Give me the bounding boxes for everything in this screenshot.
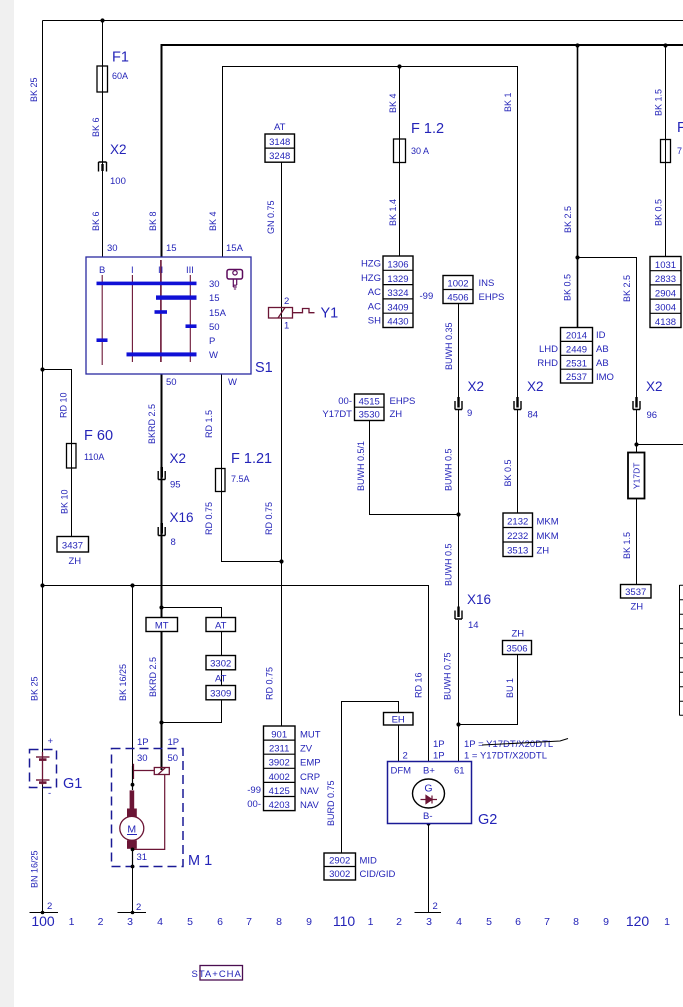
svg-text:HZG: HZG xyxy=(361,273,381,284)
S1 row labels 30 15 15A 50 P W xyxy=(209,279,227,361)
svg-text:50: 50 xyxy=(168,753,179,764)
node: junction left wire/F60 branch xyxy=(40,367,44,371)
svg-text:7: 7 xyxy=(544,916,550,928)
svg-text:2531: 2531 xyxy=(566,358,587,369)
svg-text:HZG: HZG xyxy=(361,259,381,270)
G2 rotor circle xyxy=(413,779,445,808)
svg-text:EH: EH xyxy=(392,715,405,726)
wire: AT box to 3302 xyxy=(221,632,223,656)
svg-text:9: 9 xyxy=(603,916,609,928)
svg-text:2: 2 xyxy=(47,901,52,912)
connector X2 pin 95 on 50-wire xyxy=(158,451,186,491)
svg-text:50: 50 xyxy=(166,377,177,388)
svg-text:BUWH 0.5: BUWH 0.5 xyxy=(444,448,454,491)
block 2902/3002 xyxy=(324,853,396,880)
svg-text:CRP: CRP xyxy=(300,772,320,783)
svg-text:BK 6: BK 6 xyxy=(91,117,101,137)
node: junction W-wire meets Y1 wire xyxy=(279,559,283,563)
svg-text:1P: 1P xyxy=(433,751,445,762)
svg-text:96: 96 xyxy=(647,410,658,421)
svg-text:2014: 2014 xyxy=(566,331,587,342)
svg-text:ID: ID xyxy=(596,330,606,341)
svg-text:M: M xyxy=(127,824,136,836)
grid coordinate numbers xyxy=(31,913,670,929)
svg-text:00-: 00- xyxy=(338,396,352,407)
generator G2 xyxy=(388,762,498,829)
svg-text:AB: AB xyxy=(596,344,609,355)
svg-text:4: 4 xyxy=(456,916,462,928)
svg-text:MKM: MKM xyxy=(537,531,559,542)
svg-text:+: + xyxy=(48,736,54,747)
svg-text:BK 0.5: BK 0.5 xyxy=(654,199,664,226)
svg-text:NAV: NAV xyxy=(300,786,319,797)
G2 diode symbol xyxy=(421,796,438,804)
connector stack at right page edge xyxy=(680,585,683,716)
node: junction G2 B- xyxy=(426,821,430,825)
svg-text:RHD: RHD xyxy=(537,358,558,369)
svg-text:RD 10: RD 10 xyxy=(59,392,69,418)
svg-text:X2: X2 xyxy=(110,142,127,157)
wire: branch to fuse F60 xyxy=(43,370,72,537)
svg-text:X2: X2 xyxy=(468,379,485,394)
svg-text:14: 14 xyxy=(468,620,479,631)
connector X2 pin 9 xyxy=(455,379,484,419)
svg-text:BK 16/25: BK 16/25 xyxy=(118,664,128,701)
svg-text:RD 16: RD 16 xyxy=(414,672,424,698)
svg-text:2132: 2132 xyxy=(507,517,528,528)
svg-text:BUWH 0.75: BUWH 0.75 xyxy=(443,652,453,700)
connector X16 pin 14 xyxy=(455,592,491,631)
svg-text:15: 15 xyxy=(166,243,177,254)
svg-text:RD 0.75: RD 0.75 xyxy=(204,502,214,535)
svg-text:5: 5 xyxy=(486,916,492,928)
svg-text:2: 2 xyxy=(98,916,104,928)
svg-text:S1: S1 xyxy=(255,360,273,376)
svg-text:60A: 60A xyxy=(112,71,128,81)
wire: BK2.5 drop to block 2014 xyxy=(577,46,579,328)
node: battery ground joint xyxy=(41,911,45,915)
svg-text:4: 4 xyxy=(157,916,163,928)
svg-text:30: 30 xyxy=(137,753,148,764)
wire: X2-96 to Y17DT unit and node to right edge xyxy=(636,410,638,453)
svg-text:EMP: EMP xyxy=(300,758,321,769)
svg-text:MKM: MKM xyxy=(537,517,559,528)
svg-text:II: II xyxy=(158,265,163,276)
svg-text:00-: 00- xyxy=(247,799,261,810)
svg-text:3302: 3302 xyxy=(210,659,231,670)
starter motor M1 xyxy=(112,737,213,869)
wire: top bus 30-feed from battery node xyxy=(43,20,683,22)
svg-text:15A: 15A xyxy=(209,308,227,319)
svg-text:BUWH 0.5/1: BUWH 0.5/1 xyxy=(356,441,366,491)
svg-text:6: 6 xyxy=(515,916,521,928)
block stack 901/2311/3902/4002/4125/4203 xyxy=(247,726,321,811)
key icon of S1 xyxy=(227,270,243,290)
svg-text:8: 8 xyxy=(171,537,176,548)
svg-text:F: F xyxy=(677,120,683,136)
svg-text:CID/GID: CID/GID xyxy=(360,869,396,880)
block 3537 xyxy=(621,585,652,613)
svg-text:RD 0.75: RD 0.75 xyxy=(264,502,274,535)
svg-text:BK 6: BK 6 xyxy=(91,211,101,231)
current-flow tag STA+CHA xyxy=(192,966,243,981)
svg-text:ZH: ZH xyxy=(537,546,550,557)
svg-text:4125: 4125 xyxy=(269,786,290,797)
svg-text:AT: AT xyxy=(274,122,286,133)
svg-text:2: 2 xyxy=(284,296,289,307)
svg-text:3004: 3004 xyxy=(655,303,676,314)
node: junction X2-96 wire to right edge xyxy=(634,442,638,446)
svg-text:61: 61 xyxy=(454,766,465,777)
block stack 2132/2232/3513 xyxy=(503,513,559,557)
svg-text:3002: 3002 xyxy=(329,869,350,880)
svg-text:1329: 1329 xyxy=(387,274,408,285)
svg-text:3: 3 xyxy=(426,916,432,928)
node: junction BUWH/4515 branch xyxy=(456,512,460,516)
wire: EH box to G2 terminal DFM xyxy=(398,725,400,762)
svg-text:1P: 1P xyxy=(168,737,180,748)
wire: branch from 50-wire to AT gearbox chain xyxy=(162,608,222,618)
ground: battery earth strap xyxy=(30,912,59,914)
svg-text:1002: 1002 xyxy=(447,279,468,290)
svg-text:BK 2.5: BK 2.5 xyxy=(622,275,632,302)
block stack 1031/2833/2904/3004/4138 xyxy=(650,257,681,328)
svg-text:3409: 3409 xyxy=(387,302,408,313)
wire: branch from block 3530 to BUWH node xyxy=(370,421,459,515)
wire: GN0.75 from block 3248 through Y1 down to block 901 xyxy=(281,162,283,726)
block 4515/3530 xyxy=(322,394,415,421)
wire: branch from block 3506 to BUWH node xyxy=(459,655,518,725)
ignition switch S1 body xyxy=(86,257,251,374)
svg-text:-99: -99 xyxy=(420,291,434,302)
svg-text:LHD: LHD xyxy=(539,344,558,355)
svg-text:AB: AB xyxy=(596,358,609,369)
node: junction bus15/BK2.5 xyxy=(575,43,579,47)
node: M1 ground joint xyxy=(131,911,135,915)
block MT xyxy=(146,618,178,632)
wire: BK1 continuation below connector X2-84 into block 2132 xyxy=(517,410,519,514)
node: junction 50-wire/AT branch xyxy=(159,605,163,609)
svg-text:2449: 2449 xyxy=(566,344,587,355)
svg-text:AT: AT xyxy=(215,674,227,685)
wire: BK16-25 drop to M1 terminal 30 xyxy=(132,586,134,767)
svg-text:15: 15 xyxy=(209,293,220,304)
svg-text:X2: X2 xyxy=(170,451,187,466)
svg-text:MT: MT xyxy=(155,621,169,632)
svg-text:2: 2 xyxy=(136,902,141,913)
svg-text:30: 30 xyxy=(107,243,118,254)
svg-text:ZV: ZV xyxy=(300,744,313,755)
svg-text:2537: 2537 xyxy=(566,372,587,383)
ground: G2 earth strap xyxy=(415,912,442,914)
wire: S1 terminal 50 down to starter M1 (thick BKRD2.5) xyxy=(161,374,163,770)
svg-text:4430: 4430 xyxy=(387,317,408,328)
svg-text:3530: 3530 xyxy=(359,410,380,421)
svg-text:X2: X2 xyxy=(646,379,663,394)
svg-text:BK 25: BK 25 xyxy=(29,77,39,102)
svg-text:1P: 1P xyxy=(433,739,445,750)
wire: left battery lead BK25 / BN16-25 xyxy=(42,21,44,913)
svg-text:AC: AC xyxy=(368,301,381,312)
svg-text:BUWH 0.35: BUWH 0.35 xyxy=(444,322,454,370)
block 1002/4506 xyxy=(443,276,504,304)
connector X16 pin 8 on 50-wire xyxy=(158,510,193,548)
svg-text:ZH: ZH xyxy=(69,556,82,567)
svg-text:III: III xyxy=(186,265,194,276)
svg-text:F1: F1 xyxy=(112,50,129,66)
wire: S1 terminal W via fuse F1.21 to Y1 node xyxy=(222,374,282,562)
svg-text:F 1.21: F 1.21 xyxy=(231,451,272,467)
S1 column header labels xyxy=(99,265,194,276)
svg-text:MUT: MUT xyxy=(300,730,321,741)
node: junction bus15A/F1.2 xyxy=(397,64,401,68)
svg-text:4002: 4002 xyxy=(269,772,290,783)
wire: bus 15-feed (thick) from S1 terminal 15 xyxy=(162,45,683,257)
svg-text:-: - xyxy=(48,788,51,799)
svg-text:W: W xyxy=(209,350,218,361)
wire: right fuse drop BK1.5/BK0.5 to block 1031 xyxy=(665,46,667,257)
G1 cell plates xyxy=(36,752,50,785)
svg-text:-99: -99 xyxy=(247,785,261,796)
svg-text:30: 30 xyxy=(209,279,220,290)
svg-text:BK 4: BK 4 xyxy=(388,93,398,113)
control unit Y17DT box xyxy=(628,453,645,499)
wire: 3309 return to 50-wire xyxy=(162,700,222,723)
svg-text:F 60: F 60 xyxy=(84,428,113,444)
wire: BUWH from block 4506 through X2-9, X16-14 to G2 61 xyxy=(458,304,460,402)
svg-text:2904: 2904 xyxy=(655,288,676,299)
svg-text:M 1: M 1 xyxy=(188,853,212,869)
svg-text:BK 1: BK 1 xyxy=(503,92,513,112)
svg-text:MID: MID xyxy=(360,856,378,867)
svg-text:8: 8 xyxy=(573,916,579,928)
svg-text:Y17DT: Y17DT xyxy=(632,463,642,489)
svg-text:110: 110 xyxy=(333,913,356,929)
svg-text:5: 5 xyxy=(187,916,193,928)
svg-text:ZH: ZH xyxy=(390,409,403,420)
svg-text:STA+CHA: STA+CHA xyxy=(192,969,242,980)
svg-text:4203: 4203 xyxy=(269,800,290,811)
svg-text:2: 2 xyxy=(403,751,408,762)
svg-text:9: 9 xyxy=(467,408,472,419)
svg-text:4506: 4506 xyxy=(447,293,468,304)
svg-text:IMO: IMO xyxy=(596,372,614,383)
block stack 2014/2449/2531/2537 xyxy=(537,328,614,384)
svg-text:7: 7 xyxy=(246,916,252,928)
node: junction bus D/M1 drop xyxy=(130,583,134,587)
M1 internal joints xyxy=(131,783,135,787)
block 3506 xyxy=(503,641,532,655)
svg-text:ZH: ZH xyxy=(631,602,644,613)
svg-text:7: 7 xyxy=(677,146,682,156)
footnote text 1P = Y17DT/X20DTL (struck) xyxy=(464,739,568,751)
svg-text:2232: 2232 xyxy=(507,531,528,542)
svg-text:3902: 3902 xyxy=(269,758,290,769)
svg-text:100: 100 xyxy=(31,913,55,929)
svg-text:AC: AC xyxy=(368,287,381,298)
svg-text:B-: B- xyxy=(423,811,433,822)
svg-text:7.5A: 7.5A xyxy=(231,474,250,484)
svg-text:1P: 1P xyxy=(137,737,149,748)
wire: BURD0.75 from block 2902 up to EH box xyxy=(342,702,399,854)
svg-text:X16: X16 xyxy=(467,592,491,607)
svg-text:B+: B+ xyxy=(423,766,435,777)
svg-text:1 = Y17DT/X20DTL: 1 = Y17DT/X20DTL xyxy=(464,751,547,762)
svg-text:X2: X2 xyxy=(527,379,544,394)
svg-text:1P = Y17DT/X20DTL: 1P = Y17DT/X20DTL xyxy=(464,739,553,750)
svg-text:BU 1: BU 1 xyxy=(505,678,515,698)
ground: M1 earth strap xyxy=(118,912,147,914)
svg-text:120: 120 xyxy=(626,913,650,929)
svg-text:NAV: NAV xyxy=(300,800,319,811)
wire: Y17DT unit to block 3537 (BK1.5) xyxy=(636,499,638,585)
svg-text:1: 1 xyxy=(69,916,75,928)
block AT xyxy=(206,618,236,632)
connector X2 pin 84 xyxy=(514,379,544,421)
svg-text:INS: INS xyxy=(479,278,495,289)
svg-text:BK 25: BK 25 xyxy=(30,676,40,701)
svg-text:3: 3 xyxy=(127,916,133,928)
svg-text:4138: 4138 xyxy=(655,317,676,328)
svg-text:BKRD 2.5: BKRD 2.5 xyxy=(147,404,157,444)
wire: F1.2 drop BK4/BK1.4 to block 1306 xyxy=(399,67,401,257)
svg-text:3324: 3324 xyxy=(387,288,408,299)
wire: fuse F1 drop BK6 to S1 terminal 30 xyxy=(102,21,104,258)
svg-text:1: 1 xyxy=(284,321,289,332)
svg-text:6: 6 xyxy=(217,916,223,928)
svg-text:1: 1 xyxy=(368,916,374,928)
svg-text:2833: 2833 xyxy=(655,274,676,285)
node: junction bus15/right fuse xyxy=(663,43,667,47)
svg-text:110A: 110A xyxy=(84,452,104,462)
wire: G2 B- to ground xyxy=(428,824,430,913)
svg-text:2: 2 xyxy=(396,916,402,928)
svg-text:BK 1.5: BK 1.5 xyxy=(622,532,632,559)
wire: M1 30-terminal internal lead xyxy=(132,766,134,790)
node: junction left wire/bus D xyxy=(40,583,44,587)
svg-text:SH: SH xyxy=(368,316,381,327)
block EH xyxy=(384,713,414,726)
svg-text:Y17DT: Y17DT xyxy=(322,409,352,420)
wire: 3302 to 3309 gap xyxy=(221,670,223,686)
svg-text:G2: G2 xyxy=(478,812,497,828)
svg-text:BK 0.5: BK 0.5 xyxy=(563,274,573,301)
svg-text:2902: 2902 xyxy=(329,856,350,867)
svg-text:3148: 3148 xyxy=(269,137,290,148)
svg-text:3248: 3248 xyxy=(269,151,290,162)
battery G1 xyxy=(30,736,83,799)
svg-text:F 1.2: F 1.2 xyxy=(411,121,444,137)
svg-text:15A: 15A xyxy=(226,243,244,254)
fuse F1.21 xyxy=(216,451,273,492)
svg-text:901: 901 xyxy=(271,730,287,741)
svg-text:I: I xyxy=(131,265,134,276)
M1 brush block lower xyxy=(127,840,137,849)
S1 contact bars xyxy=(97,282,197,357)
M1 dashed housing xyxy=(112,749,184,867)
block stack 1306/1329/3324/3409/4430 xyxy=(361,256,433,328)
svg-text:3506: 3506 xyxy=(506,644,527,655)
wire: bus 15A-feed from S1 terminal 15A to BK1 drop xyxy=(223,67,518,402)
svg-text:BUWH 0.5: BUWH 0.5 xyxy=(444,543,454,586)
svg-text:95: 95 xyxy=(170,480,181,491)
S1 contact columns B I II III xyxy=(102,260,190,365)
svg-text:3513: 3513 xyxy=(507,546,528,557)
svg-text:BK 4: BK 4 xyxy=(208,211,218,231)
svg-text:3537: 3537 xyxy=(625,587,646,598)
M1 solenoid contact xyxy=(133,764,170,850)
connector X2 pin 96 xyxy=(633,379,663,421)
svg-text:3309: 3309 xyxy=(210,689,231,700)
svg-text:BK 8: BK 8 xyxy=(148,211,158,231)
node: junction BUWH/3506 branch xyxy=(456,722,460,726)
svg-text:G1: G1 xyxy=(63,776,82,792)
svg-text:EHPS: EHPS xyxy=(390,396,416,407)
svg-text:GN 0.75: GN 0.75 xyxy=(266,200,276,234)
svg-text:X16: X16 xyxy=(170,510,194,525)
svg-text:2: 2 xyxy=(433,901,438,912)
svg-text:BK 1.5: BK 1.5 xyxy=(654,89,664,116)
svg-text:BN 16/25: BN 16/25 xyxy=(30,850,40,888)
svg-text:RD 1.5: RD 1.5 xyxy=(204,410,214,438)
fuse F1.2 xyxy=(394,121,445,163)
wire: bus D horizontal to RD16 drop into G2 B+ xyxy=(43,586,429,762)
svg-text:AT: AT xyxy=(215,621,227,632)
svg-text:DFM: DFM xyxy=(391,766,412,777)
svg-text:BK 2.5: BK 2.5 xyxy=(563,206,573,233)
svg-text:BURD 0.75: BURD 0.75 xyxy=(326,780,336,826)
svg-text:84: 84 xyxy=(528,410,539,421)
svg-text:BK 0.5: BK 0.5 xyxy=(503,459,513,486)
wire: branch from BK2.5 node to X2-96 column xyxy=(578,258,637,402)
svg-text:1306: 1306 xyxy=(387,260,408,271)
fuse F1 xyxy=(97,50,129,93)
svg-text:Y1: Y1 xyxy=(321,306,339,322)
M1 brush block upper xyxy=(127,809,137,817)
svg-text:9: 9 xyxy=(306,916,312,928)
wire: M1 terminal 31 to ground xyxy=(132,867,134,913)
svg-text:BK 10: BK 10 xyxy=(60,489,70,514)
svg-text:8: 8 xyxy=(276,916,282,928)
fuse F60 xyxy=(67,428,114,468)
block 3309 xyxy=(206,686,236,700)
M1 motor winding bar xyxy=(130,790,135,811)
svg-text:50: 50 xyxy=(209,322,220,333)
node: junction bus30/F1 xyxy=(100,18,104,22)
M1 motor circle xyxy=(120,816,144,840)
solenoid valve Y1 xyxy=(269,296,339,332)
svg-text:100: 100 xyxy=(110,176,126,187)
svg-text:B: B xyxy=(99,265,105,276)
fuse F (right edge, designator cut) xyxy=(661,120,683,163)
svg-text:30 A: 30 A xyxy=(411,146,429,156)
node: junction BK2.5 split xyxy=(575,255,579,259)
svg-text:BKRD 2.5: BKRD 2.5 xyxy=(148,657,158,697)
svg-text:ZH: ZH xyxy=(512,629,525,640)
block AT 3148/3248 xyxy=(265,122,295,162)
connector X2 pin 100 xyxy=(99,142,127,187)
svg-text:3437: 3437 xyxy=(62,541,83,552)
block 3302 xyxy=(206,656,236,670)
svg-text:W: W xyxy=(228,377,237,388)
svg-text:31: 31 xyxy=(137,852,148,863)
svg-text:G: G xyxy=(424,783,432,795)
svg-text:P: P xyxy=(209,336,215,347)
node: junction 50-wire/3309 return xyxy=(159,720,163,724)
block 3437 xyxy=(57,537,89,568)
svg-text:RD 0.75: RD 0.75 xyxy=(265,667,275,700)
svg-text:4515: 4515 xyxy=(359,397,380,408)
